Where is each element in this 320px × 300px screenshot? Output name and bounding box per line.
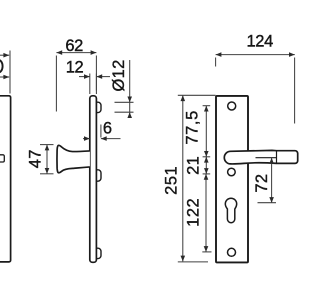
svg-text:62: 62 [65,37,83,55]
dim 77,5 tick lines [203,105,211,107]
dim 21 tick line [203,173,211,175]
dim 47 line and arrows [45,145,50,174]
dim 62 extension lines [55,56,57,112]
dim 47 tick lines [40,144,54,146]
front view: lever handle [224,150,297,164]
front view: euro cylinder keyhole [225,198,236,223]
dim 77,5 line and arrows [204,106,209,157]
svg-text:Ø12: Ø12 [110,59,128,91]
svg-text:77,5: 77,5 [183,110,201,145]
left cut-off view: plate edge rectangle [0,96,11,262]
dim 6 extension line [100,125,102,138]
dim Ø12 arrows [127,97,132,119]
dim 122 tick line [202,251,211,253]
svg-text:21: 21 [185,156,203,175]
svg-text:47: 47 [27,149,45,168]
front view: bottom screw hole [228,248,236,256]
dim 124 line and arrows [216,52,295,57]
side view: middle screw lug [96,170,101,181]
svg-text:124: 124 [247,33,274,51]
svg-text:122: 122 [185,198,203,227]
side view: top screw lug [96,102,101,112]
dim Ø12 tick lines [115,101,134,103]
dim 6 line and arrows [83,136,121,141]
cut dimension lower line [0,75,9,80]
dim 12 extension lines [89,74,91,95]
cut dimension extension line [9,51,11,94]
dim 122 line and arrows [204,174,209,252]
cut dimension partial digit [0,60,3,73]
svg-text:12: 12 [66,58,84,76]
left cut-off view: spindle tab [0,155,4,162]
side view: handle grip and neck [57,145,90,172]
dim 251 line and arrows [181,95,186,261]
dim 72 line and arrows [269,158,274,203]
dim 72 tick line [258,202,277,204]
dim 62 line and arrows [56,50,96,55]
front view: backplate [216,96,248,263]
cut dimension upper line [0,53,9,58]
dim Ø12 vertical line [129,60,131,118]
dim 12 line and arrows [79,74,110,79]
dim 251 extension lines [178,94,216,96]
front view: lever seam line [276,151,278,163]
front view: top screw hole [228,102,236,110]
svg-text:251: 251 [163,166,181,195]
dim 21 line and arrows [204,157,209,174]
front view: lever centerline tick [256,157,277,159]
svg-text:72: 72 [253,174,271,193]
side view: bottom screw lug [96,248,101,258]
svg-text:6: 6 [103,119,112,137]
dim 124 extension lines [215,58,217,67]
front view: hole below lever [228,168,236,176]
side view: backplate profile [90,96,97,262]
